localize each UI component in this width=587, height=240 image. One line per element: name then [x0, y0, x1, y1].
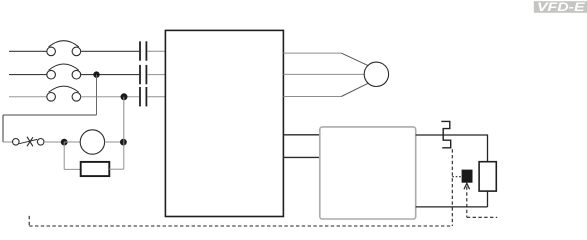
- AC drive U1 enclosure: [165, 30, 283, 216]
- contactor MC pole 3 right bar: [145, 87, 147, 106]
- breaker pole 1 arc: [49, 41, 79, 47]
- thermal overload relay contact: [441, 121, 450, 147]
- breaker pole 2 right contact: [72, 70, 81, 79]
- contactor MC pole 2 left bar: [139, 65, 141, 84]
- wire brake unit to resistor top: [416, 135, 488, 162]
- wire resistor bottom: [487, 191, 489, 207]
- breaker pole 1 left contact: [47, 47, 56, 56]
- wire to surge suppressor left: [64, 168, 81, 170]
- brake unit BUE enclosure: [320, 127, 416, 219]
- contactor MC pole 2 right bar: [145, 65, 147, 84]
- wire L2 left: [9, 74, 47, 76]
- wire node A down: [63, 142, 65, 169]
- wire L3 middle: [81, 96, 140, 98]
- breaker pole 3 arc: [49, 86, 79, 92]
- surge suppressor resistor: [81, 162, 110, 176]
- arrow head to sensor: [464, 183, 470, 189]
- overload relay OL contact left terminal: [13, 139, 20, 146]
- junction on L2: [93, 71, 99, 77]
- wire motor W: [283, 96, 341, 98]
- dashed bottom right run: [467, 216, 497, 218]
- node A junction: [61, 139, 68, 146]
- thermal sensor block: [462, 170, 473, 183]
- wire motor U diagonal: [341, 53, 368, 65]
- breaker pole 3 left contact: [47, 93, 56, 102]
- contactor MC pole 1 right bar: [145, 41, 147, 60]
- wire to OL contact: [3, 141, 13, 143]
- overload relay OL contact right terminal: [37, 139, 44, 146]
- wire return to brake unit: [416, 206, 488, 208]
- MC coil: [80, 130, 104, 154]
- wire node B up to L3 junction: [123, 97, 125, 142]
- wire motor V: [283, 73, 364, 75]
- breaker pole 2 arc: [49, 64, 79, 70]
- wire drive to brake unit lower: [283, 156, 319, 158]
- breaker pole 3 right contact: [72, 93, 81, 102]
- wire L2 middle: [81, 74, 140, 76]
- wire motor U: [283, 52, 341, 54]
- wire control top horizontal: [3, 114, 97, 116]
- wire L1 middle: [81, 50, 140, 52]
- wire control tap down from L2 junction: [96, 75, 98, 115]
- overload relay OL cross stroke 2: [27, 137, 33, 146]
- contactor MC pole 3 left bar: [139, 87, 141, 106]
- wire MC coil to node B: [105, 141, 124, 143]
- wire L1 left: [9, 50, 47, 52]
- wire drive to brake unit upper: [283, 134, 319, 136]
- logo VFD-E badge: [534, 0, 587, 14]
- wire surge suppressor right: [109, 168, 124, 170]
- breaker pole 2 left contact: [47, 70, 56, 79]
- svg-text:VFD-E: VFD-E: [537, 0, 586, 14]
- wire motor W diagonal: [341, 83, 368, 96]
- junction on L3: [121, 93, 128, 100]
- dash-dot branch to sensor: [452, 176, 461, 178]
- breaker pole 1 right contact: [72, 47, 81, 56]
- overload relay OL cross stroke 1: [27, 137, 33, 147]
- brake resistor: [479, 162, 496, 191]
- wire L1 to drive: [147, 50, 165, 52]
- wire OL to node A: [44, 141, 61, 143]
- wire control left vertical: [2, 115, 4, 142]
- contactor MC pole 1 left bar: [139, 41, 141, 60]
- overload relay OL lever: [19, 139, 37, 143]
- wire node A to MC coil: [64, 141, 80, 143]
- dashed vertical from thermal contact: [451, 149, 453, 226]
- wire L3 to drive: [147, 96, 165, 98]
- dashed arrow stem: [466, 187, 468, 218]
- wire L3 left: [9, 96, 47, 98]
- node B junction: [120, 139, 127, 146]
- wire up to node B: [123, 142, 125, 169]
- dashed bottom run: [29, 225, 452, 227]
- dashed riser start: [28, 216, 30, 226]
- motor M: [364, 62, 388, 86]
- wire L2 to drive: [147, 74, 165, 76]
